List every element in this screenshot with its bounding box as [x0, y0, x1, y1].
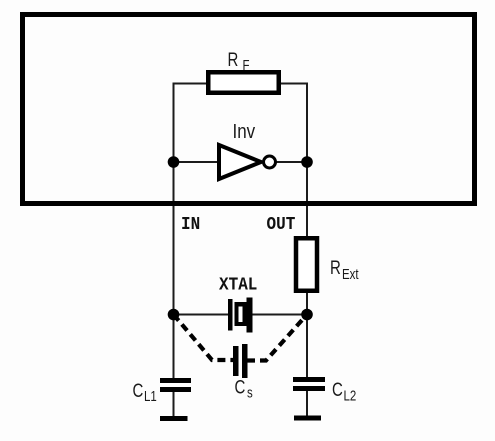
- svg-text:XTAL: XTAL: [219, 276, 257, 296]
- label C_L1: [133, 379, 157, 404]
- capacitor C_L2: [293, 377, 325, 391]
- wire dashed C_s right: [247, 315, 307, 361]
- svg-text:F: F: [243, 57, 250, 74]
- wire crystal right: [252, 314, 307, 316]
- node crystal right: [301, 309, 313, 321]
- crystal XTAL left plate: [228, 299, 233, 331]
- node inverter output: [301, 156, 313, 168]
- node crystal left: [168, 309, 180, 321]
- svg-text:OUT: OUT: [267, 215, 296, 235]
- resistor R_Ext: [296, 238, 317, 291]
- wire dashed C_s left: [174, 315, 234, 361]
- wire left rail vertical: [173, 83, 175, 379]
- capacitor C_s: [233, 344, 248, 378]
- svg-text:R: R: [330, 256, 341, 278]
- svg-text:L1: L1: [144, 388, 157, 405]
- inverter bubble: [264, 156, 276, 168]
- wire C_L2 to ground: [306, 391, 308, 417]
- wire C_L1 to ground: [173, 392, 175, 418]
- wire R_F top horizontal: [174, 83, 308, 85]
- svg-text:C: C: [133, 379, 144, 401]
- wire inverter input: [174, 161, 220, 163]
- svg-text:IN: IN: [181, 215, 200, 235]
- op-amp U1 inverter triangle: [219, 145, 261, 179]
- label R_Ext: [330, 256, 359, 282]
- svg-text:Inv: Inv: [233, 120, 256, 143]
- crystal XTAL body: [235, 302, 249, 326]
- wire crystal left: [174, 314, 229, 316]
- svg-text:Ext: Ext: [342, 266, 359, 283]
- ground C_L1: [160, 416, 188, 421]
- svg-text:C: C: [332, 378, 343, 400]
- svg-text:R: R: [228, 48, 239, 70]
- node inverter input: [168, 156, 180, 168]
- resistor R_F: [208, 72, 279, 93]
- label C_s: [235, 376, 254, 401]
- IC box: [23, 15, 475, 204]
- label R_F: [228, 48, 250, 73]
- label C_L2: [332, 378, 356, 404]
- crystal XTAL right plate: [247, 298, 253, 333]
- ground C_L2: [294, 416, 321, 421]
- wire right rail vertical: [306, 83, 308, 378]
- capacitor C_L1: [160, 378, 191, 392]
- wire inverter output: [277, 161, 308, 163]
- svg-text:L2: L2: [344, 387, 357, 404]
- svg-text:C: C: [235, 376, 246, 398]
- svg-text:s: s: [247, 384, 253, 401]
